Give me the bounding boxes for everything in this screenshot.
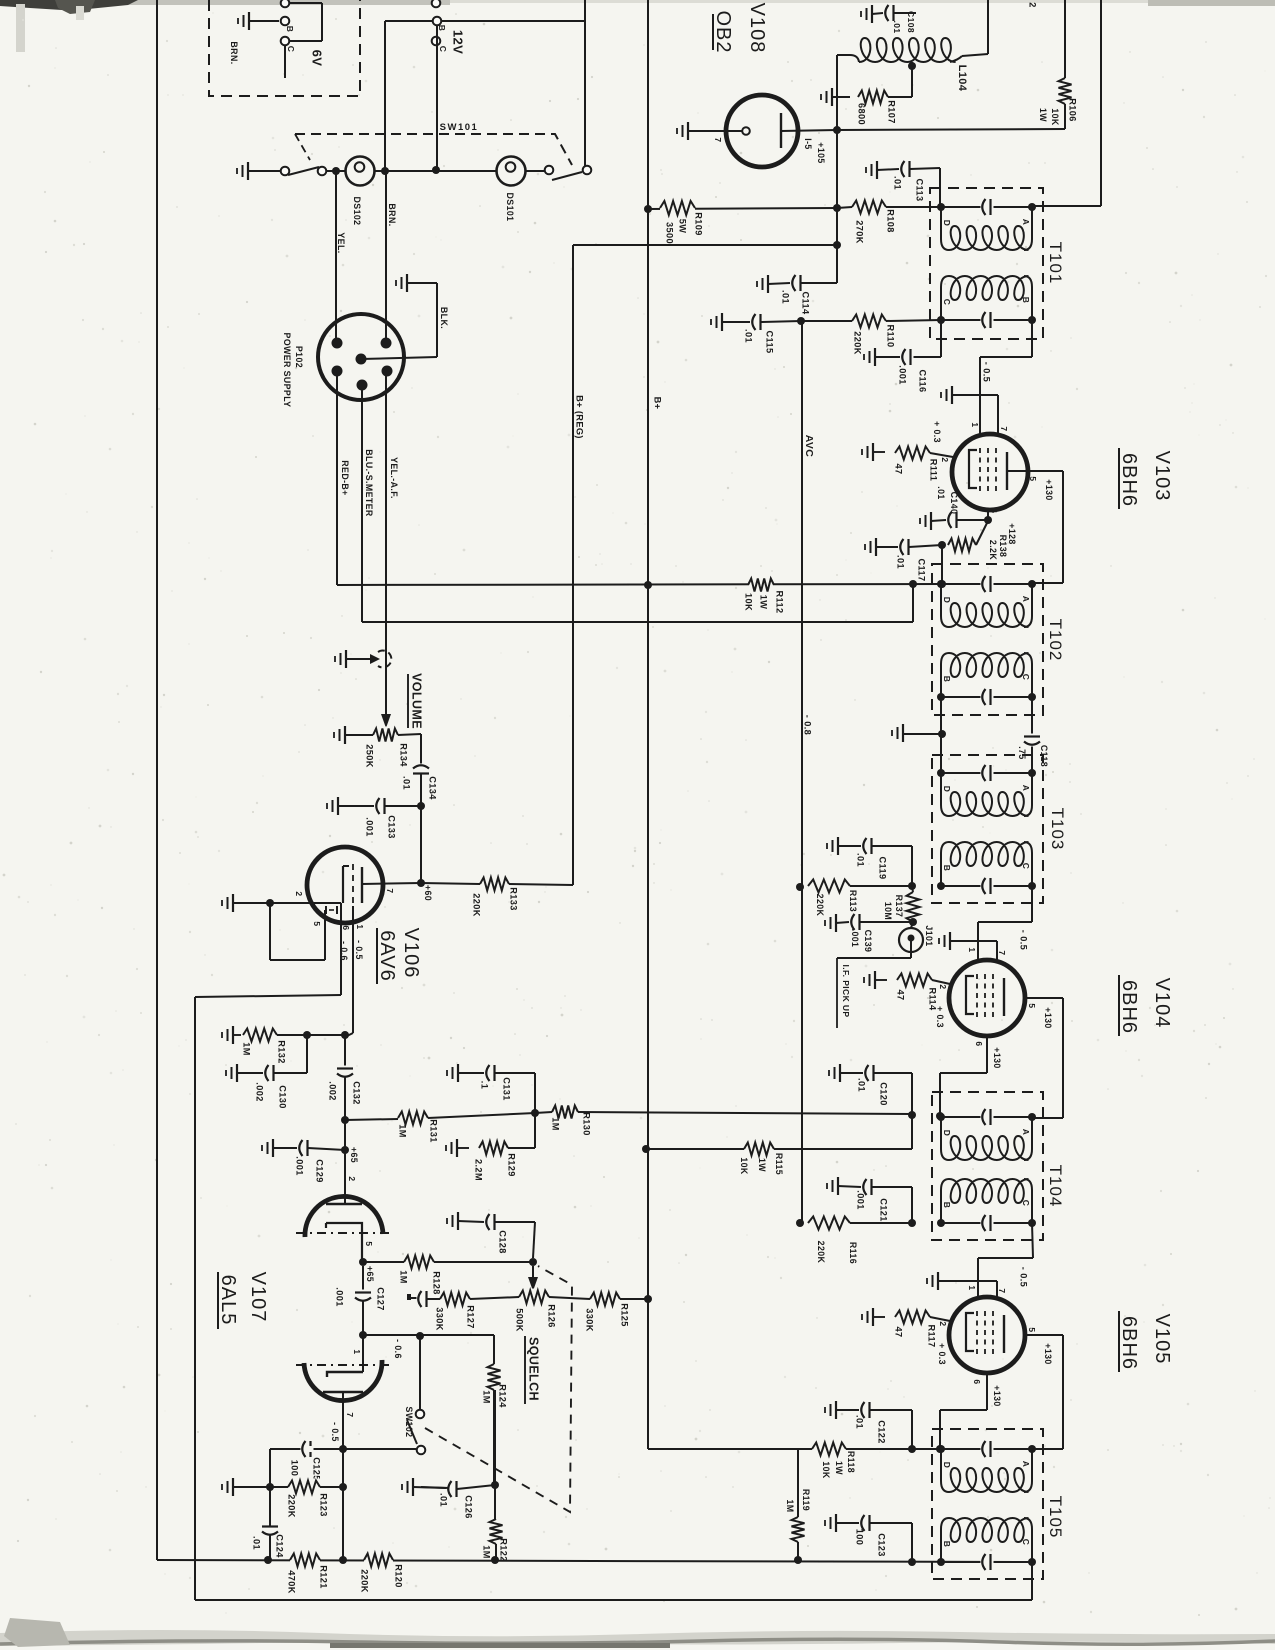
svg-text:R121: R121 <box>319 1565 329 1589</box>
svg-text:5: 5 <box>1027 1327 1037 1332</box>
svg-text:1: 1 <box>352 1349 362 1354</box>
svg-text:1W: 1W <box>834 1461 844 1475</box>
svg-text:T104: T104 <box>1046 1165 1065 1208</box>
svg-text:R108: R108 <box>886 209 896 233</box>
svg-text:6BH6: 6BH6 <box>1118 453 1140 507</box>
svg-text:7: 7 <box>385 888 395 893</box>
svg-text:BLU.-S.METER: BLU.-S.METER <box>364 449 374 517</box>
svg-text:V105: V105 <box>1151 1314 1173 1365</box>
svg-text:R131: R131 <box>429 1119 439 1143</box>
svg-text:10K: 10K <box>821 1461 831 1479</box>
svg-text:47: 47 <box>894 463 904 474</box>
svg-text:220K: 220K <box>816 1241 826 1264</box>
svg-text:.01: .01 <box>857 1078 867 1092</box>
svg-text:- 0.5: - 0.5 <box>330 1422 340 1442</box>
svg-text:R125: R125 <box>620 1303 630 1327</box>
svg-text:I-5: I-5 <box>803 138 813 149</box>
svg-text:C134: C134 <box>428 776 438 800</box>
svg-text:- 0.5: - 0.5 <box>1019 930 1029 950</box>
svg-text:C125: C125 <box>312 1457 322 1481</box>
svg-text:220K: 220K <box>472 893 482 917</box>
svg-text:T101: T101 <box>1046 242 1065 285</box>
svg-text:C121: C121 <box>879 1198 889 1222</box>
svg-text:2: 2 <box>294 891 304 896</box>
svg-text:VOLUME: VOLUME <box>410 673 424 729</box>
svg-text:B: B <box>942 676 952 683</box>
svg-text:V106: V106 <box>400 928 422 979</box>
svg-text:A: A <box>1021 1129 1031 1136</box>
svg-text:250K: 250K <box>365 744 375 768</box>
svg-text:100: 100 <box>855 1529 865 1546</box>
svg-text:.001: .001 <box>365 817 375 836</box>
svg-text:C114: C114 <box>801 291 811 315</box>
svg-text:R118: R118 <box>846 1451 856 1473</box>
svg-text:SW102: SW102 <box>404 1407 414 1438</box>
svg-text:+ 0.3: + 0.3 <box>937 1343 947 1365</box>
svg-text:7: 7 <box>713 137 723 142</box>
svg-text:6: 6 <box>972 1379 982 1384</box>
svg-text:.01: .01 <box>855 1415 865 1429</box>
svg-text:R127: R127 <box>466 1305 476 1329</box>
svg-text:5: 5 <box>312 921 322 926</box>
svg-text:C115: C115 <box>765 330 775 353</box>
svg-text:6BH6: 6BH6 <box>1118 980 1140 1034</box>
svg-text:B: B <box>942 1541 952 1548</box>
svg-text:R126: R126 <box>547 1304 557 1328</box>
svg-text:R112: R112 <box>775 590 785 613</box>
svg-text:R132: R132 <box>277 1040 287 1064</box>
svg-text:1W: 1W <box>759 595 769 610</box>
svg-text:- 0.6: - 0.6 <box>393 1339 403 1359</box>
svg-text:R134: R134 <box>399 743 409 767</box>
svg-text:+130: +130 <box>992 1385 1002 1406</box>
svg-text:+60: +60 <box>423 885 433 901</box>
svg-text:1M: 1M <box>482 1545 492 1559</box>
svg-text:R114: R114 <box>928 987 938 1011</box>
svg-text:R130: R130 <box>582 1112 592 1136</box>
svg-text:.01: .01 <box>402 776 412 790</box>
svg-text:D: D <box>942 786 952 793</box>
svg-text:R113: R113 <box>848 890 858 912</box>
svg-text:C127: C127 <box>376 1287 386 1311</box>
svg-text:DS101: DS101 <box>505 193 515 222</box>
svg-text:V104: V104 <box>1151 978 1173 1029</box>
svg-text:C126: C126 <box>464 1495 474 1519</box>
svg-text:6: 6 <box>974 1041 984 1046</box>
svg-text:1: 1 <box>967 947 977 952</box>
svg-text:.1: .1 <box>480 1081 490 1089</box>
svg-text:+65: +65 <box>349 1147 359 1163</box>
svg-text:B: B <box>942 865 952 872</box>
svg-text:C119: C119 <box>878 856 888 879</box>
svg-text:1: 1 <box>967 1285 977 1290</box>
svg-text:R129: R129 <box>507 1153 517 1177</box>
svg-text:10K: 10K <box>1050 108 1060 126</box>
svg-text:R119: R119 <box>801 1489 811 1511</box>
svg-text:C132: C132 <box>352 1081 362 1105</box>
svg-text:100: 100 <box>290 1460 300 1477</box>
svg-text:C: C <box>1021 674 1031 681</box>
svg-text:+130: +130 <box>1043 1343 1053 1364</box>
svg-text:OB2: OB2 <box>712 10 734 53</box>
svg-text:C124: C124 <box>275 1534 285 1558</box>
svg-text:C131: C131 <box>502 1077 512 1101</box>
svg-text:220K: 220K <box>815 894 825 917</box>
svg-text:B: B <box>437 25 447 32</box>
svg-text:.001: .001 <box>295 1156 305 1175</box>
svg-text:C122: C122 <box>877 1420 887 1444</box>
svg-text:220K: 220K <box>287 1494 297 1518</box>
svg-text:1W: 1W <box>1038 108 1048 122</box>
svg-text:R109: R109 <box>694 212 704 236</box>
svg-text:YEL.: YEL. <box>336 232 346 253</box>
svg-text:BRN.: BRN. <box>387 203 397 226</box>
svg-text:10K: 10K <box>744 593 754 611</box>
svg-text:C128: C128 <box>498 1230 508 1254</box>
svg-text:R133: R133 <box>509 887 519 911</box>
svg-text:R122: R122 <box>499 1538 509 1562</box>
svg-text:47: 47 <box>894 1326 904 1337</box>
svg-text:C: C <box>1021 1200 1031 1207</box>
svg-text:.01: .01 <box>439 1493 449 1507</box>
svg-text:12V: 12V <box>450 30 465 54</box>
svg-text:+130: +130 <box>992 1047 1002 1068</box>
svg-text:.75: .75 <box>1017 746 1027 759</box>
svg-text:2: 2 <box>940 457 950 462</box>
svg-text:470K: 470K <box>287 1570 297 1594</box>
svg-text:R138: R138 <box>998 535 1008 558</box>
svg-text:C: C <box>1021 1539 1031 1546</box>
svg-text:B+: B+ <box>653 397 663 410</box>
svg-text:1M: 1M <box>398 1124 408 1138</box>
svg-text:R116: R116 <box>848 1242 858 1264</box>
svg-text:C113: C113 <box>915 178 925 201</box>
svg-text:R115: R115 <box>774 1153 784 1175</box>
svg-text:1M: 1M <box>785 1499 795 1512</box>
svg-text:C139: C139 <box>863 930 873 953</box>
svg-text:2: 2 <box>1028 2 1038 8</box>
svg-text:A: A <box>1021 785 1031 792</box>
svg-text:330K: 330K <box>585 1308 595 1332</box>
svg-text:C129: C129 <box>315 1159 325 1183</box>
svg-text:3500: 3500 <box>665 222 675 244</box>
svg-text:.01: .01 <box>744 329 754 343</box>
svg-text:BRN.: BRN. <box>229 41 239 64</box>
svg-text:330K: 330K <box>435 1307 445 1331</box>
svg-text:+105: +105 <box>816 142 826 163</box>
svg-text:RED-B+: RED-B+ <box>340 460 350 495</box>
svg-text:B: B <box>1021 297 1031 304</box>
svg-text:.01: .01 <box>896 555 906 569</box>
svg-text:1M: 1M <box>482 1390 492 1404</box>
svg-text:10M: 10M <box>883 902 893 920</box>
svg-text:.01: .01 <box>892 20 902 33</box>
svg-text:6AV6: 6AV6 <box>376 930 398 981</box>
svg-text:BLK.: BLK. <box>439 307 449 329</box>
svg-text:L104: L104 <box>956 65 968 92</box>
svg-text:6: 6 <box>341 925 351 930</box>
svg-text:R137: R137 <box>894 895 904 918</box>
svg-text:- 0.6: - 0.6 <box>339 941 349 961</box>
svg-text:C117: C117 <box>917 558 927 581</box>
svg-text:C: C <box>286 46 296 53</box>
svg-text:270K: 270K <box>855 220 865 244</box>
svg-text:47: 47 <box>896 989 906 1000</box>
svg-text:V107: V107 <box>247 1272 269 1323</box>
svg-text:6: 6 <box>989 508 999 513</box>
svg-text:B: B <box>942 1202 952 1209</box>
svg-text:AVC: AVC <box>803 435 815 458</box>
svg-text:R120: R120 <box>394 1564 404 1588</box>
svg-text:6BH6: 6BH6 <box>1118 1316 1140 1370</box>
svg-text:C120: C120 <box>879 1082 889 1106</box>
svg-text:6AL5: 6AL5 <box>217 1275 239 1326</box>
svg-text:1M: 1M <box>242 1042 252 1056</box>
svg-text:.001: .001 <box>335 1287 345 1306</box>
svg-text:.01: .01 <box>856 853 866 867</box>
svg-text:1: 1 <box>970 422 980 427</box>
svg-text:5W: 5W <box>678 219 688 234</box>
svg-text:.01: .01 <box>252 1536 262 1550</box>
svg-text:.01: .01 <box>893 176 903 190</box>
svg-text:.001: .001 <box>898 365 908 384</box>
svg-text:1: 1 <box>355 924 365 929</box>
svg-text:C123: C123 <box>877 1533 887 1557</box>
svg-text:220K: 220K <box>853 331 863 355</box>
svg-text:+130: +130 <box>1043 1007 1053 1028</box>
svg-text:DS102: DS102 <box>352 197 362 226</box>
svg-text:D: D <box>942 1462 952 1469</box>
svg-text:6V: 6V <box>309 50 324 67</box>
svg-text:.002: .002 <box>328 1081 338 1100</box>
svg-text:5: 5 <box>1027 1003 1037 1008</box>
svg-text:2: 2 <box>938 1321 948 1326</box>
svg-text:V108: V108 <box>746 3 768 54</box>
svg-text:500K: 500K <box>515 1308 525 1332</box>
svg-text:B: B <box>285 26 295 33</box>
svg-text:POWER SUPPLY: POWER SUPPLY <box>282 333 292 408</box>
svg-text:C133: C133 <box>387 815 397 839</box>
svg-text:R106: R106 <box>1068 98 1078 122</box>
svg-text:- 0.8: - 0.8 <box>803 715 813 735</box>
svg-text:1M: 1M <box>551 1117 561 1131</box>
svg-text:6800: 6800 <box>857 103 867 125</box>
svg-text:R123: R123 <box>319 1493 329 1517</box>
svg-text:R107: R107 <box>887 100 897 124</box>
svg-text:+65: +65 <box>365 1266 375 1282</box>
svg-text:+130: +130 <box>1044 479 1054 500</box>
svg-text:C108: C108 <box>906 11 916 33</box>
svg-text:- 0.5: - 0.5 <box>1019 1267 1029 1287</box>
svg-text:T102: T102 <box>1046 619 1065 662</box>
svg-text:C: C <box>942 299 952 306</box>
svg-text:J101: J101 <box>924 925 934 946</box>
svg-text:.001: .001 <box>850 929 860 948</box>
svg-text:YEL.-A.F.: YEL.-A.F. <box>389 457 399 499</box>
svg-text:.01: .01 <box>781 290 791 304</box>
svg-text:2: 2 <box>347 1176 357 1181</box>
svg-text:7: 7 <box>997 1288 1007 1293</box>
svg-text:.001: .001 <box>856 1190 866 1209</box>
svg-text:A: A <box>1021 219 1031 226</box>
svg-text:D: D <box>942 597 952 604</box>
svg-text:5: 5 <box>364 1241 374 1246</box>
svg-text:T105: T105 <box>1046 1496 1065 1539</box>
svg-text:D: D <box>942 220 952 227</box>
svg-text:V103: V103 <box>1151 451 1173 502</box>
svg-text:.01: .01 <box>936 486 946 499</box>
svg-text:10K: 10K <box>739 1157 749 1175</box>
svg-text:SW101: SW101 <box>440 122 479 133</box>
svg-text:7: 7 <box>997 950 1007 955</box>
svg-text:R111: R111 <box>929 459 939 482</box>
svg-text:P102: P102 <box>294 346 304 368</box>
svg-text:5: 5 <box>1028 476 1038 481</box>
svg-text:A: A <box>1021 1461 1031 1468</box>
svg-text:1M: 1M <box>399 1270 409 1284</box>
svg-text:2.2K: 2.2K <box>988 540 998 560</box>
svg-text:- 0.5: - 0.5 <box>354 940 364 960</box>
svg-text:C116: C116 <box>918 369 928 392</box>
svg-text:.002: .002 <box>255 1082 265 1101</box>
svg-text:2: 2 <box>938 984 948 989</box>
svg-text:R124: R124 <box>498 1384 508 1408</box>
svg-text:220K: 220K <box>360 1569 370 1593</box>
svg-text:C: C <box>1021 863 1031 870</box>
svg-text:- 0.5: - 0.5 <box>982 362 992 382</box>
svg-text:R110: R110 <box>886 324 896 347</box>
svg-text:C130: C130 <box>278 1085 288 1109</box>
svg-text:B+ (REG): B+ (REG) <box>575 395 585 439</box>
svg-text:7: 7 <box>999 426 1009 431</box>
svg-text:R117: R117 <box>927 1324 937 1347</box>
svg-text:C: C <box>438 46 448 53</box>
svg-text:+ 0.3: + 0.3 <box>932 421 942 443</box>
svg-text:2.2M: 2.2M <box>474 1159 484 1181</box>
svg-text:C140: C140 <box>949 492 959 515</box>
svg-text:SQUELCH: SQUELCH <box>527 1337 541 1401</box>
svg-text:D: D <box>942 1130 952 1137</box>
svg-text:I.F. PICK UP: I.F. PICK UP <box>841 965 851 1018</box>
svg-text:1W: 1W <box>757 1158 767 1172</box>
svg-text:A: A <box>1021 596 1031 603</box>
svg-text:7: 7 <box>345 1412 355 1417</box>
svg-text:T103: T103 <box>1048 808 1067 851</box>
